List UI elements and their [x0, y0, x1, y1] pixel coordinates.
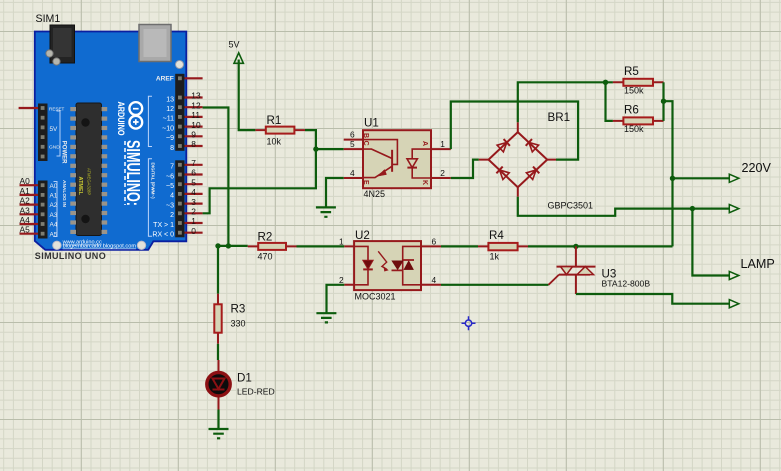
- svg-text:6: 6: [191, 168, 196, 178]
- arduino right headers: [175, 74, 184, 151]
- wire R3 to D1: [217, 344, 219, 360]
- junction: [573, 244, 578, 249]
- IC ATMEGA328P: [70, 103, 107, 236]
- svg-text:7: 7: [170, 164, 174, 171]
- svg-text:SIMULINO:: SIMULINO:: [123, 140, 144, 206]
- wire D1 to ground: [217, 410, 219, 430]
- svg-text:2: 2: [339, 275, 344, 285]
- cursor crosshair: [462, 316, 476, 330]
- svg-text:4: 4: [191, 187, 196, 197]
- arduino board SIM1: [35, 25, 187, 250]
- svg-text:ARDUINO: ARDUINO: [116, 102, 126, 136]
- wire to R6: [606, 82, 613, 121]
- svg-text:R1: R1: [267, 114, 282, 127]
- svg-text:A: A: [421, 141, 428, 146]
- svg-text:6: 6: [350, 130, 355, 140]
- svg-text:5V: 5V: [229, 39, 240, 49]
- svg-text:12: 12: [191, 100, 201, 110]
- svg-text:~10: ~10: [162, 125, 174, 132]
- ground (under U2): [316, 313, 336, 322]
- wire R2 to U2.1: [297, 245, 345, 247]
- svg-text:R2: R2: [258, 231, 273, 244]
- svg-text:2: 2: [170, 212, 174, 219]
- svg-text:E: E: [362, 180, 369, 185]
- svg-text:D1: D1: [237, 372, 252, 385]
- svg-text:A1: A1: [20, 186, 31, 196]
- svg-text:LED-RED: LED-RED: [237, 387, 275, 397]
- svg-text:11: 11: [191, 110, 200, 120]
- svg-text:GND: GND: [49, 145, 60, 151]
- wire bridge bottom to 220V terminal 2: [518, 197, 730, 216]
- svg-text:BTA12-800B: BTA12-800B: [602, 278, 651, 288]
- svg-text:330: 330: [231, 319, 246, 329]
- svg-text:A3: A3: [20, 205, 31, 215]
- svg-text:ATMEL: ATMEL: [77, 177, 83, 196]
- svg-text:6: 6: [432, 236, 437, 246]
- wire to 220V terminal 1: [673, 177, 730, 179]
- resistor R4 1k: [478, 229, 528, 262]
- arduino left power header: [38, 104, 48, 162]
- svg-text:C: C: [362, 141, 369, 146]
- wire triac MT1 to LAMP terminal 2: [576, 294, 729, 304]
- svg-text:GBPC3501: GBPC3501: [548, 201, 594, 211]
- svg-text:U1: U1: [364, 117, 379, 130]
- svg-text:4: 4: [350, 168, 355, 178]
- svg-text:~9: ~9: [166, 135, 174, 142]
- triac U3 BTA12-800B: [549, 246, 651, 294]
- svg-text:R3: R3: [231, 303, 246, 316]
- LED D1 LED-RED: [207, 360, 275, 410]
- svg-text:A0: A0: [20, 176, 31, 186]
- wire U2.2 to ground: [327, 285, 345, 313]
- wire R5/R6 right join: [662, 82, 664, 121]
- svg-text:~5: ~5: [166, 183, 174, 190]
- svg-text:R6: R6: [624, 104, 639, 117]
- svg-text:4: 4: [432, 275, 437, 285]
- wire U2.6 to R4: [441, 245, 478, 247]
- svg-text:7: 7: [191, 158, 196, 168]
- junction: [313, 146, 318, 151]
- svg-text:SIM1: SIM1: [36, 13, 61, 25]
- bridge rectifier BR1 GBPC3501: [479, 111, 593, 211]
- svg-text:ANALOG IN: ANALOG IN: [61, 180, 67, 207]
- svg-text:2: 2: [440, 168, 445, 178]
- junction: [603, 80, 608, 85]
- svg-text:2: 2: [191, 207, 196, 217]
- svg-text:ATMEGA328P: ATMEGA328P: [87, 168, 92, 195]
- junction: [670, 176, 675, 181]
- junction: [690, 206, 695, 211]
- wire to LAMP terminal 1: [692, 209, 729, 276]
- svg-text:A4: A4: [20, 215, 31, 225]
- svg-text:5V: 5V: [50, 126, 59, 133]
- ground (under U1): [316, 207, 336, 216]
- svg-text:SIMULINO UNO: SIMULINO UNO: [35, 251, 106, 261]
- svg-text:220V: 220V: [742, 161, 772, 175]
- resistor R3 330: [214, 294, 245, 344]
- svg-text:BR1: BR1: [548, 111, 571, 124]
- svg-text:13: 13: [191, 91, 201, 101]
- resistor R5 150k: [613, 65, 664, 96]
- svg-text:13: 13: [166, 96, 174, 103]
- optocoupler U2 MOC3021: [339, 229, 441, 302]
- svg-text:A5: A5: [20, 225, 31, 235]
- svg-text:blogembarcado.blogspot.com: blogembarcado.blogspot.com: [63, 244, 137, 250]
- wire U1.2 to bridge left: [451, 160, 479, 178]
- svg-text:DIGITAL (PWM~): DIGITAL (PWM~): [150, 163, 155, 200]
- svg-text:0: 0: [191, 226, 196, 236]
- svg-text:1: 1: [191, 216, 196, 226]
- svg-text:1: 1: [339, 236, 344, 246]
- svg-text:150k: 150k: [624, 86, 644, 96]
- power 5V symbol: [234, 53, 243, 64]
- svg-text:LAMP: LAMP: [741, 257, 775, 271]
- wire down right rail: [664, 101, 673, 246]
- ground (under D1): [209, 429, 229, 438]
- svg-text:MOC3021: MOC3021: [355, 292, 396, 302]
- svg-text:~11: ~11: [163, 116, 174, 123]
- svg-text:B: B: [362, 133, 369, 138]
- resistor R1 10k: [255, 114, 305, 147]
- arduino pin stubs: [19, 78, 203, 233]
- terminal arrow 220V b: [729, 205, 739, 213]
- svg-text:POWER: POWER: [61, 141, 67, 164]
- svg-text:3: 3: [191, 197, 196, 207]
- svg-text:10: 10: [191, 120, 201, 130]
- svg-text:470: 470: [258, 252, 273, 262]
- svg-text:AREF: AREF: [156, 76, 174, 83]
- svg-text:~3: ~3: [166, 202, 174, 209]
- svg-text:1k: 1k: [490, 252, 500, 262]
- wire U2.4 to triac gate: [441, 284, 549, 286]
- svg-text:5: 5: [350, 139, 355, 149]
- svg-text:150k: 150k: [624, 124, 644, 134]
- svg-text:K: K: [421, 180, 428, 185]
- svg-text:8: 8: [170, 145, 174, 152]
- svg-text:10k: 10k: [267, 137, 282, 147]
- svg-text:U2: U2: [355, 229, 370, 242]
- wire R4 to triac node: [528, 245, 673, 247]
- junction: [661, 99, 666, 104]
- optocoupler U1 4N25: [344, 117, 451, 200]
- svg-text:12: 12: [166, 106, 174, 113]
- svg-text:~6: ~6: [166, 173, 174, 180]
- svg-text:TX > 1: TX > 1: [153, 222, 174, 229]
- resistor R6 150k: [613, 104, 664, 135]
- wire U1.1 to bridge: [451, 102, 578, 160]
- svg-text:4: 4: [170, 193, 174, 200]
- wire U1.4 to ground: [326, 178, 344, 207]
- resistor R2 470: [248, 231, 297, 262]
- svg-text:5: 5: [191, 177, 196, 187]
- svg-text:RX < 0: RX < 0: [152, 232, 174, 239]
- terminal arrow 220V a: [729, 174, 739, 182]
- svg-text:9: 9: [191, 130, 196, 140]
- junction: [215, 243, 220, 248]
- svg-text:A2: A2: [20, 196, 31, 206]
- junction: [226, 243, 231, 248]
- svg-text:R5: R5: [624, 65, 639, 78]
- wire 5V to R1: [239, 60, 256, 131]
- wire R1 right / node to U1.5 and pin2: [203, 130, 316, 213]
- svg-text:4N25: 4N25: [364, 189, 386, 199]
- wire bridge top to R5/R6: [518, 82, 613, 122]
- wire to R2: [228, 245, 247, 247]
- arduino analog header A0-A5: [38, 181, 48, 239]
- svg-text:1: 1: [440, 139, 445, 149]
- label SIMULINO: [124, 141, 126, 205]
- svg-text:R4: R4: [489, 229, 504, 242]
- svg-text:8: 8: [191, 139, 196, 149]
- wire pin12 down: [203, 108, 229, 246]
- terminal arrow LAMP a: [729, 271, 739, 279]
- terminal arrow LAMP b: [729, 300, 739, 308]
- wire node to R2/R3: [218, 246, 228, 294]
